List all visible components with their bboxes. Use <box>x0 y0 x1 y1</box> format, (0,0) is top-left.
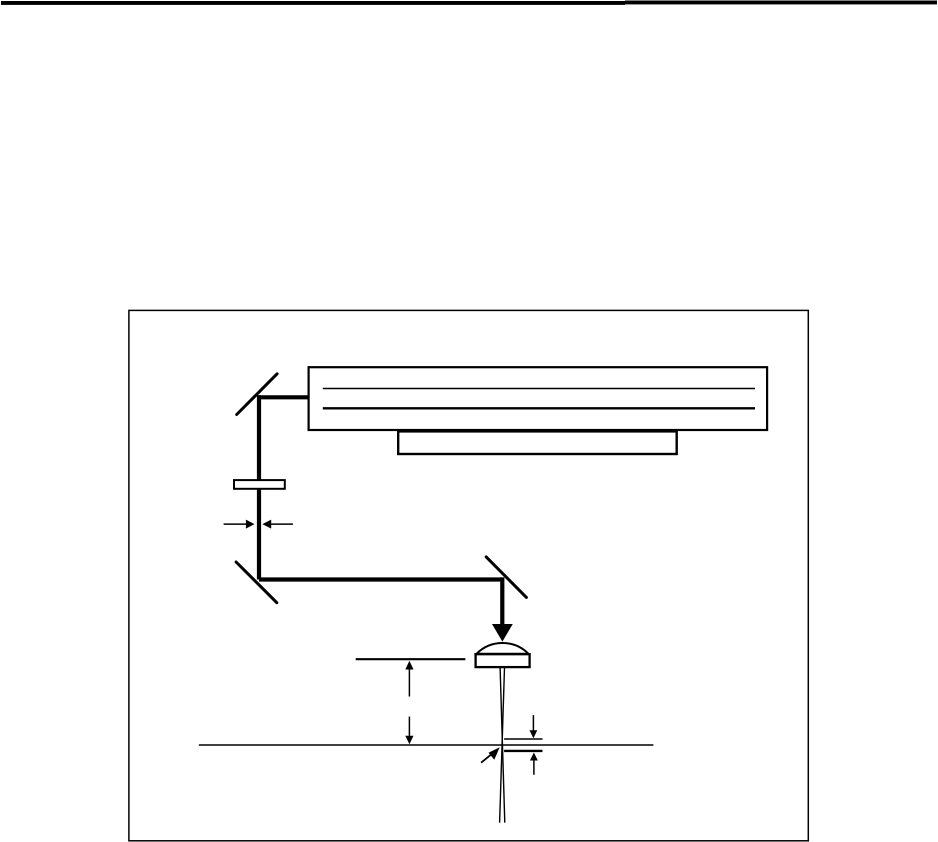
header rule left segment <box>1 1 625 5</box>
focal point pointer arrow <box>481 754 492 763</box>
focus depth arrow up <box>533 759 535 775</box>
discharge tube upper line <box>323 388 755 390</box>
beam diameter arrow left <box>224 523 247 525</box>
focus lower tick line <box>504 750 542 752</box>
beam diameter arrow right <box>270 523 293 525</box>
oscillator base box <box>398 431 677 454</box>
aperture / beam-diameter element <box>234 480 285 489</box>
beam: vertical from M3 down to focusing lens <box>500 577 504 624</box>
discharge tube lower line <box>323 407 755 409</box>
header rule right segment <box>625 1 937 5</box>
focus depth arrow down <box>532 715 534 731</box>
bend mirror M2 <box>236 562 277 603</box>
laser oscillator box <box>309 367 767 430</box>
beam: vertical from M1 down to bend mirror M2 <box>257 395 261 579</box>
dimension arrow up (lens height) <box>408 667 410 697</box>
focus upper tick line <box>504 738 542 740</box>
workpiece surface line <box>199 744 654 746</box>
bend mirror M3 <box>486 557 526 598</box>
focusing lens body <box>476 654 530 667</box>
beam: horizontal from M2 to bend mirror M3 <box>259 577 502 581</box>
beam arrowhead into focusing lens <box>492 624 513 642</box>
lens height reference line <box>356 658 466 660</box>
focused beam line A (converging-diverging) <box>500 668 505 823</box>
dimension arrow down (lens height) <box>408 717 410 738</box>
bend mirror M1 <box>237 374 277 415</box>
focused beam line B (converging-diverging) <box>500 668 505 823</box>
focusing lens dome <box>477 643 529 654</box>
figure frame <box>129 310 808 840</box>
beam: oscillator to bend mirror M1 (horizontal) <box>257 395 309 399</box>
